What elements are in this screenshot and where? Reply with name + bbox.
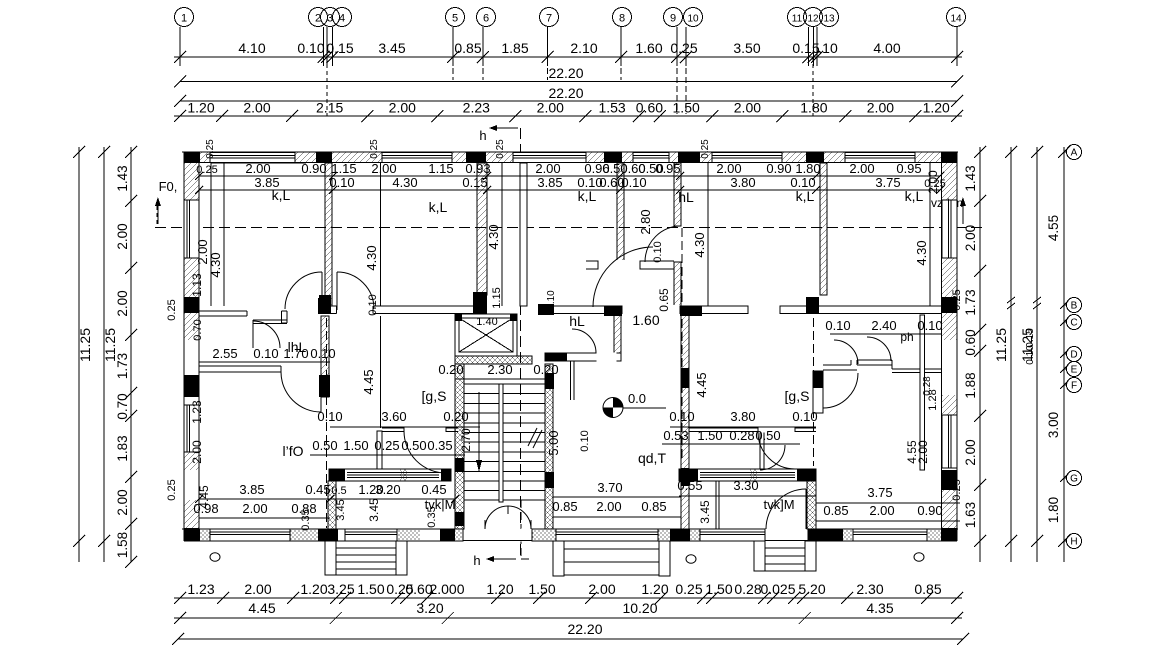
svg-text:4.45: 4.45 xyxy=(197,485,211,509)
svg-text:0.55: 0.55 xyxy=(677,478,702,493)
svg-text:0.50: 0.50 xyxy=(312,438,337,453)
svg-text:2.00: 2.00 xyxy=(867,100,894,116)
svg-text:2.40: 2.40 xyxy=(871,318,896,333)
svg-text:H: H xyxy=(1070,537,1077,548)
svg-text:1.20: 1.20 xyxy=(486,581,513,597)
svg-text:2.00: 2.00 xyxy=(716,161,741,176)
svg-text:hL: hL xyxy=(569,313,585,329)
svg-text:2.00: 2.00 xyxy=(926,170,940,194)
svg-text:4.45: 4.45 xyxy=(248,600,275,616)
svg-text:3.45: 3.45 xyxy=(698,500,712,524)
svg-text:3.75: 3.75 xyxy=(875,175,900,190)
svg-text:3.45: 3.45 xyxy=(335,499,347,520)
svg-text:0.65: 0.65 xyxy=(657,288,671,312)
svg-text:2.30: 2.30 xyxy=(856,581,883,597)
svg-text:2.00: 2.00 xyxy=(588,581,615,597)
svg-text:1.50: 1.50 xyxy=(528,581,555,597)
svg-text:1.13: 1.13 xyxy=(190,273,204,297)
svg-text:2.10: 2.10 xyxy=(570,40,597,56)
svg-text:2.00: 2.00 xyxy=(243,100,270,116)
svg-text:2.30: 2.30 xyxy=(487,362,512,377)
svg-text:3.85: 3.85 xyxy=(254,175,279,190)
svg-text:2.00: 2.00 xyxy=(537,100,564,116)
svg-text:1.80: 1.80 xyxy=(795,161,820,176)
svg-text:0.15: 0.15 xyxy=(792,40,819,56)
svg-text:0.50: 0.50 xyxy=(401,438,426,453)
svg-text:22.20: 22.20 xyxy=(567,621,602,637)
svg-text:0.10: 0.10 xyxy=(621,175,646,190)
svg-text:0.10: 0.10 xyxy=(579,430,591,451)
svg-text:0.45: 0.45 xyxy=(421,482,446,497)
svg-text:1.73: 1.73 xyxy=(115,353,130,379)
svg-text:2.00: 2.00 xyxy=(371,161,396,176)
svg-text:A: A xyxy=(1071,148,1078,159)
svg-text:0.25: 0.25 xyxy=(166,299,178,320)
svg-text:9: 9 xyxy=(670,13,676,25)
svg-text:[g,S: [g,S xyxy=(785,388,810,404)
svg-text:0.15: 0.15 xyxy=(462,175,487,190)
svg-text:1.43: 1.43 xyxy=(115,165,130,191)
svg-text:hL: hL xyxy=(678,189,694,205)
svg-text:0.25: 0.25 xyxy=(675,581,702,597)
svg-text:3.60: 3.60 xyxy=(381,409,406,424)
svg-text:0.20: 0.20 xyxy=(443,409,468,424)
svg-text:l’fO: l’fO xyxy=(283,443,304,459)
svg-text:0.85: 0.85 xyxy=(641,499,666,514)
svg-text:2.00: 2.00 xyxy=(115,489,130,515)
svg-text:2.00: 2.00 xyxy=(535,161,560,176)
svg-text:0.25: 0.25 xyxy=(166,479,178,500)
svg-text:qd,T: qd,T xyxy=(638,450,666,466)
svg-text:0.10: 0.10 xyxy=(825,318,850,333)
svg-text:1.53: 1.53 xyxy=(598,100,625,116)
svg-text:1.50: 1.50 xyxy=(357,581,384,597)
svg-text:1.20: 1.20 xyxy=(300,581,327,597)
svg-text:2.00: 2.00 xyxy=(916,440,930,464)
svg-text:2.00: 2.00 xyxy=(963,225,978,251)
svg-text:8: 8 xyxy=(619,13,625,25)
svg-text:1.40: 1.40 xyxy=(476,316,497,328)
svg-text:6: 6 xyxy=(483,13,489,25)
svg-text:0.25: 0.25 xyxy=(205,139,216,159)
svg-text:3.80: 3.80 xyxy=(730,175,755,190)
svg-text:0.10: 0.10 xyxy=(546,290,557,310)
svg-text:2.00: 2.00 xyxy=(849,161,874,176)
svg-text:10.20: 10.20 xyxy=(622,600,657,616)
svg-text:0.25: 0.25 xyxy=(374,438,399,453)
svg-text:F0,: F0, xyxy=(159,179,178,194)
svg-text:4.30: 4.30 xyxy=(914,240,929,265)
svg-text:E: E xyxy=(1071,365,1078,376)
svg-text:3.85: 3.85 xyxy=(537,175,562,190)
svg-text:4.30: 4.30 xyxy=(392,175,417,190)
svg-text:0.10: 0.10 xyxy=(792,409,817,424)
svg-text:0.25: 0.25 xyxy=(196,164,217,176)
svg-text:0.93: 0.93 xyxy=(465,161,490,176)
svg-text:4.00: 4.00 xyxy=(873,40,900,56)
svg-text:B: B xyxy=(1071,301,1078,312)
svg-text:1.28: 1.28 xyxy=(927,389,939,410)
svg-text:0.25: 0.25 xyxy=(670,40,697,56)
svg-text:4.30: 4.30 xyxy=(692,232,707,257)
svg-text:1.80: 1.80 xyxy=(1046,497,1061,523)
svg-text:3.30: 3.30 xyxy=(733,478,758,493)
svg-text:3.45: 3.45 xyxy=(367,498,381,522)
svg-text:0.90: 0.90 xyxy=(917,503,942,518)
svg-text:3.85: 3.85 xyxy=(239,482,264,497)
svg-text:F: F xyxy=(1071,381,1077,392)
svg-text:2.000: 2.000 xyxy=(429,581,464,597)
svg-text:4.55: 4.55 xyxy=(1046,215,1061,241)
svg-text:4.10: 4.10 xyxy=(238,40,265,56)
svg-text:0.25: 0.25 xyxy=(369,139,380,159)
svg-text:3.20: 3.20 xyxy=(375,482,400,497)
svg-text:1.15: 1.15 xyxy=(428,161,453,176)
svg-text:0.20: 0.20 xyxy=(438,362,463,377)
svg-text:0.95: 0.95 xyxy=(655,161,680,176)
svg-text:0.25: 0.25 xyxy=(951,289,963,310)
svg-text:2.00: 2.00 xyxy=(596,499,621,514)
svg-text:2.00: 2.00 xyxy=(389,100,416,116)
svg-text:1.20: 1.20 xyxy=(923,100,950,116)
svg-text:0.53: 0.53 xyxy=(663,428,688,443)
svg-text:0.10: 0.10 xyxy=(1025,345,1036,365)
svg-text:1.80: 1.80 xyxy=(800,100,827,116)
svg-text:1.23: 1.23 xyxy=(187,581,214,597)
svg-text:1.88: 1.88 xyxy=(963,372,978,398)
svg-text:1.60: 1.60 xyxy=(635,40,662,56)
svg-text:1.50: 1.50 xyxy=(697,428,722,443)
svg-text:3.25: 3.25 xyxy=(327,581,354,597)
svg-text:4.30: 4.30 xyxy=(208,252,223,277)
svg-text:11.25: 11.25 xyxy=(77,328,93,362)
svg-text:5.00: 5.00 xyxy=(546,430,561,455)
svg-text:0.20: 0.20 xyxy=(533,362,558,377)
svg-text:0.15: 0.15 xyxy=(326,40,353,56)
svg-text:3.80: 3.80 xyxy=(730,409,755,424)
svg-text:0.0: 0.0 xyxy=(628,391,646,406)
svg-text:D: D xyxy=(1070,350,1077,361)
svg-text:2.55: 2.55 xyxy=(212,346,237,361)
svg-text:0.60: 0.60 xyxy=(636,100,663,116)
svg-text:11.25: 11.25 xyxy=(993,328,1009,362)
svg-text:2.23: 2.23 xyxy=(463,100,490,116)
svg-text:3.75: 3.75 xyxy=(867,485,892,500)
svg-text:0.10: 0.10 xyxy=(317,409,342,424)
svg-text:0.10: 0.10 xyxy=(917,318,942,333)
svg-text:3.45: 3.45 xyxy=(378,40,405,56)
svg-text:0.25: 0.25 xyxy=(700,139,711,159)
svg-text:3.00: 3.00 xyxy=(1046,412,1061,438)
svg-text:14: 14 xyxy=(950,14,962,25)
svg-text:0.28: 0.28 xyxy=(729,428,754,443)
svg-text:0.35: 0.35 xyxy=(300,509,312,530)
svg-text:2.15: 2.15 xyxy=(316,100,343,116)
svg-text:4.45: 4.45 xyxy=(361,369,376,394)
svg-text:2.00: 2.00 xyxy=(115,223,130,249)
svg-text:2.00: 2.00 xyxy=(242,501,267,516)
svg-text:2.00: 2.00 xyxy=(963,439,978,465)
svg-text:4.45: 4.45 xyxy=(694,372,709,397)
svg-text:1.15: 1.15 xyxy=(491,287,503,308)
svg-text:tvk]M: tvk]M xyxy=(763,497,794,512)
svg-text:0.35: 0.35 xyxy=(427,438,452,453)
svg-text:0.45: 0.45 xyxy=(305,482,330,497)
svg-text:0.10: 0.10 xyxy=(652,241,664,262)
svg-text:3.50: 3.50 xyxy=(733,40,760,56)
svg-text:1.83: 1.83 xyxy=(115,435,130,461)
svg-text:0.25: 0.25 xyxy=(951,479,963,500)
svg-text:10: 10 xyxy=(687,14,699,25)
svg-text:0.25: 0.25 xyxy=(495,139,506,159)
svg-text:1.20: 1.20 xyxy=(641,581,668,597)
svg-text:2.00: 2.00 xyxy=(869,503,894,518)
svg-text:2.00: 2.00 xyxy=(734,100,761,116)
svg-text:0.10: 0.10 xyxy=(310,346,335,361)
svg-text:ph: ph xyxy=(900,330,913,344)
svg-text:0.28: 0.28 xyxy=(734,581,761,597)
svg-text:0.50: 0.50 xyxy=(755,428,780,443)
svg-text:1: 1 xyxy=(181,13,187,25)
svg-text:0.70: 0.70 xyxy=(192,319,204,340)
svg-text:4.35: 4.35 xyxy=(866,600,893,616)
svg-text:12: 12 xyxy=(807,14,819,25)
svg-text:1.70: 1.70 xyxy=(283,346,308,361)
svg-text:0.10: 0.10 xyxy=(329,175,354,190)
svg-text:7: 7 xyxy=(546,13,552,25)
svg-text:[g,S: [g,S xyxy=(422,388,447,404)
svg-text:1.85: 1.85 xyxy=(501,40,528,56)
svg-text:2.00: 2.00 xyxy=(190,440,204,464)
svg-text:0.85: 0.85 xyxy=(454,40,481,56)
svg-text:2.70: 2.70 xyxy=(459,428,473,452)
svg-text:0.10: 0.10 xyxy=(790,175,815,190)
svg-text:1.50: 1.50 xyxy=(343,438,368,453)
svg-text:1.23: 1.23 xyxy=(190,400,204,424)
svg-text:0.85: 0.85 xyxy=(823,503,848,518)
svg-text:1.63: 1.63 xyxy=(963,502,978,528)
svg-text:.10: .10 xyxy=(818,40,838,56)
svg-text:3.20: 3.20 xyxy=(416,600,443,616)
svg-text:1.15: 1.15 xyxy=(331,161,356,176)
svg-text:1.73: 1.73 xyxy=(963,289,978,315)
svg-text:1.58: 1.58 xyxy=(115,532,130,558)
svg-text:0.95: 0.95 xyxy=(896,161,921,176)
svg-text:1.20: 1.20 xyxy=(187,100,214,116)
svg-text:2.80: 2.80 xyxy=(638,209,653,234)
svg-text:h: h xyxy=(479,128,486,143)
svg-text:0.15: 0.15 xyxy=(1025,328,1036,348)
svg-text:5: 5 xyxy=(452,13,458,25)
svg-text:0.10: 0.10 xyxy=(669,409,694,424)
svg-text:C: C xyxy=(1070,318,1077,329)
svg-text:0.90: 0.90 xyxy=(766,161,791,176)
svg-text:0.10: 0.10 xyxy=(367,294,379,315)
svg-text:1.60: 1.60 xyxy=(632,312,659,328)
svg-text:4.30: 4.30 xyxy=(364,245,379,270)
svg-text:2.00: 2.00 xyxy=(115,290,130,316)
svg-text:0.60: 0.60 xyxy=(963,329,978,355)
svg-text:4: 4 xyxy=(339,13,345,25)
svg-text:h: h xyxy=(473,553,480,568)
svg-text:G: G xyxy=(1070,474,1078,485)
svg-text:11: 11 xyxy=(792,14,803,25)
svg-text:0.85: 0.85 xyxy=(552,499,577,514)
svg-text:0.025: 0.025 xyxy=(760,581,795,597)
svg-text:3.70: 3.70 xyxy=(597,480,622,495)
svg-text:2.00: 2.00 xyxy=(244,581,271,597)
svg-text:1.43: 1.43 xyxy=(963,165,978,191)
svg-text:0.5: 0.5 xyxy=(331,485,346,497)
svg-text:1.50: 1.50 xyxy=(705,581,732,597)
svg-text:0.70: 0.70 xyxy=(115,393,130,419)
svg-text:13: 13 xyxy=(823,14,835,25)
svg-text:5.20: 5.20 xyxy=(798,581,825,597)
svg-text:4.30: 4.30 xyxy=(486,224,501,249)
svg-text:0.85: 0.85 xyxy=(914,581,941,597)
svg-text:22.20: 22.20 xyxy=(548,65,583,81)
svg-text:k,L: k,L xyxy=(429,199,448,215)
svg-text:0.10: 0.10 xyxy=(297,40,324,56)
svg-text:0.35: 0.35 xyxy=(426,506,438,527)
svg-text:0.10: 0.10 xyxy=(253,346,278,361)
